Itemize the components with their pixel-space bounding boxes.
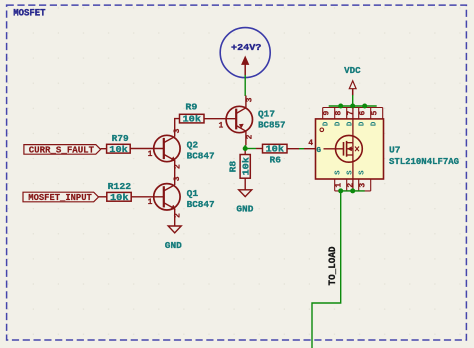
svg-text:3: 3 <box>359 183 368 188</box>
svg-text:4: 4 <box>308 139 313 148</box>
wire label to R122 <box>99 196 107 198</box>
svg-text:3: 3 <box>245 97 254 102</box>
resistor R8 (vertical) <box>240 155 251 179</box>
svg-text:BC847: BC847 <box>187 151 215 162</box>
U7 bottom pads row <box>335 179 371 191</box>
wire U7 top pins bus <box>329 105 377 107</box>
svg-text:1: 1 <box>148 198 153 207</box>
svg-text:2: 2 <box>245 134 254 139</box>
svg-text:R79: R79 <box>112 133 129 144</box>
U7 source feed line <box>352 155 354 190</box>
svg-text:10k: 10k <box>242 156 252 175</box>
R8 top pin <box>244 151 246 155</box>
wire R9 left to Q2 collector <box>175 119 180 137</box>
power symbol +24V arrow <box>242 57 249 76</box>
svg-text:10k: 10k <box>110 193 129 203</box>
svg-text:Q1: Q1 <box>187 188 199 199</box>
wire to load <box>312 191 341 348</box>
svg-text:GND: GND <box>236 204 253 215</box>
wire R6 to U7 pin 4 <box>299 148 304 150</box>
svg-text:R122: R122 <box>108 181 132 192</box>
svg-text:7: 7 <box>347 111 356 116</box>
svg-text:STL210N4LF7AG: STL210N4LF7AG <box>389 156 459 167</box>
svg-text:U7: U7 <box>389 144 401 155</box>
resistor R79 <box>107 144 131 155</box>
U7 top pads row <box>323 108 383 119</box>
svg-text:GND: GND <box>165 240 182 251</box>
U7 drain feed line <box>352 108 354 143</box>
svg-text:R8: R8 <box>228 160 239 172</box>
svg-text:1: 1 <box>219 121 224 130</box>
wire Q17 emitter to junction <box>244 145 246 151</box>
svg-text:BC857: BC857 <box>258 120 286 131</box>
wire U7 bottom pins bus <box>341 190 365 192</box>
U7 pin 4 line <box>304 148 316 150</box>
R8 bottom pin <box>244 178 246 190</box>
svg-text:10k: 10k <box>109 145 128 155</box>
transistor Q1 (BC847 NPN) <box>131 184 180 226</box>
svg-text:R6: R6 <box>270 154 282 165</box>
ground symbol under R8 <box>239 190 252 197</box>
svg-text:VDC: VDC <box>344 65 361 76</box>
power symbol VDC arrow <box>349 81 356 96</box>
svg-text:9: 9 <box>323 111 332 116</box>
svg-text:Q17: Q17 <box>258 109 275 120</box>
svg-text:R9: R9 <box>185 101 197 112</box>
resistor R122 <box>107 192 131 203</box>
svg-text:1: 1 <box>335 183 344 188</box>
svg-text:S: S <box>359 170 367 175</box>
svg-text:D: D <box>323 121 331 126</box>
power symbol +24V? circle <box>220 28 270 78</box>
transistor Q2 (BC847 NPN) <box>130 135 180 185</box>
svg-text:G: G <box>317 147 322 155</box>
junction pin 7 <box>350 104 355 109</box>
svg-text:D: D <box>359 121 367 126</box>
svg-text:D: D <box>335 121 343 126</box>
svg-text:3: 3 <box>173 128 182 133</box>
junction pin 8 <box>338 104 343 109</box>
U7 MOSFET symbol <box>324 135 363 162</box>
R6 right pin <box>287 148 299 150</box>
wire junction to R6 <box>245 148 256 150</box>
svg-text:10k: 10k <box>266 145 285 155</box>
svg-text:Q2: Q2 <box>187 140 199 151</box>
transistor Q17 (BC857 PNP) <box>204 96 253 146</box>
global label CURR_S_FAULT <box>24 145 101 156</box>
svg-text:3: 3 <box>173 176 182 181</box>
junction pin 1 <box>338 188 343 193</box>
R6 left pin <box>256 148 263 150</box>
resistor R9 <box>180 114 205 124</box>
wire +24V to Q17 collector <box>244 75 246 96</box>
svg-text:TO_LOAD: TO_LOAD <box>327 246 338 285</box>
svg-text:5: 5 <box>371 111 380 116</box>
svg-text:2: 2 <box>174 164 183 169</box>
global label MOSFET_INPUT <box>23 192 99 203</box>
ground symbol under Q1 <box>168 226 181 233</box>
resistor R6 <box>263 144 288 154</box>
junction pin 2 <box>350 188 355 193</box>
svg-text:8: 8 <box>335 111 344 116</box>
svg-text:MOSFET_INPUT: MOSFET_INPUT <box>28 192 92 203</box>
svg-text:MOSFET: MOSFET <box>13 7 46 18</box>
junction pin 6 <box>362 104 367 109</box>
svg-text:10k: 10k <box>183 115 202 125</box>
svg-text:6: 6 <box>359 111 368 116</box>
svg-text:D: D <box>371 121 379 126</box>
svg-text:BC847: BC847 <box>187 199 215 210</box>
svg-text:+24V?: +24V? <box>231 42 262 53</box>
svg-text:1: 1 <box>148 150 153 159</box>
svg-text:S: S <box>335 170 343 175</box>
U7 pin name D x5 <box>323 121 379 126</box>
wire VDC to U7 top <box>352 95 354 106</box>
wire label to R79 <box>101 148 107 150</box>
svg-text:S: S <box>347 170 355 175</box>
junction node Q17/R8/R6 <box>243 146 248 151</box>
svg-text:CURR_S_FAULT: CURR_S_FAULT <box>29 145 95 156</box>
U7 pin name S x3 <box>335 170 367 175</box>
svg-text:2: 2 <box>174 213 183 218</box>
U7 pin1 indicator dot <box>320 128 324 132</box>
svg-text:2: 2 <box>347 183 356 188</box>
U7 body <box>316 119 384 179</box>
